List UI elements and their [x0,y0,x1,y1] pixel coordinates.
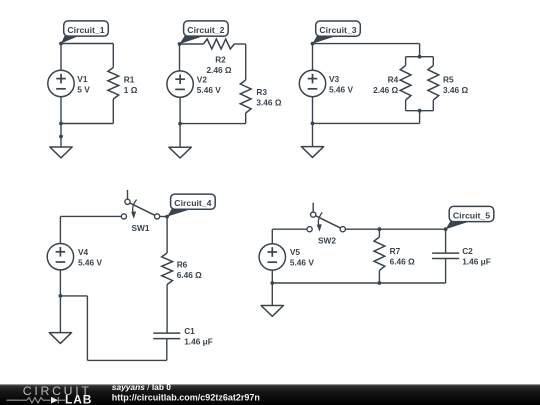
svg-text:5.46 V: 5.46 V [78,258,102,268]
node dot N2 top [178,42,182,46]
svg-text:Circuit_5: Circuit_5 [453,211,490,221]
junction dot R7 bottom [378,281,382,285]
resistor R6 [162,253,173,285]
capacitor C1 [153,333,180,339]
wire left-top C4 [59,216,61,243]
resistor R1 [108,68,119,100]
svg-text:V2: V2 [197,74,208,84]
ground GND4 [49,333,71,344]
svg-text:1.46 μF: 1.46 μF [184,337,213,347]
wire parallel bottom bar [406,110,434,112]
wire ground stub C1 [60,137,62,148]
switch SW2 [307,203,345,232]
svg-text:Circuit_1: Circuit_1 [67,25,104,35]
ground GND1 [50,147,72,158]
wire left-top C1 [60,44,62,71]
label flag Circuit_5 [446,206,494,229]
node dot N1 top [59,42,63,46]
junction dot parallel bottom [418,109,422,113]
wire R5 top stub [432,57,434,66]
svg-text:C1: C1 [184,326,195,336]
wire node to R2 [180,43,204,45]
svg-text:5.46 V: 5.46 V [329,85,353,95]
junction dot parallel top [418,55,422,59]
ground GND5 [261,306,283,317]
resistor R3 [240,80,251,113]
wire dot to riser C4 [60,295,87,297]
wire bottom C3 [313,122,420,124]
voltage source V1 [48,70,74,96]
switch SW1 [121,190,159,219]
capacitor C2 [432,253,459,258]
voltage source V4 [47,244,73,270]
wire right rail C4 [166,217,168,253]
svg-text:1 Ω: 1 Ω [124,85,138,95]
svg-text:Circuit_4: Circuit_4 [174,198,211,208]
wire R5 bottom stub [432,100,434,111]
wire left-bottom C4 [59,270,61,296]
svg-text:R3: R3 [256,87,267,97]
voltage source V5 [259,244,285,270]
wire ground stub C3 [312,123,314,146]
label flag Circuit_3 [313,21,361,44]
svg-text:SW2: SW2 [318,236,336,246]
wire bottom C1 [61,123,113,125]
ground GND2 [169,147,191,158]
junction dot C1 bottom [59,122,63,126]
node dot N3 top [311,42,315,46]
wire right-top C1 [112,44,114,68]
label flag Circuit_4 [167,194,215,217]
svg-text:R4: R4 [388,74,399,84]
svg-text:V3: V3 [329,74,340,84]
node dot N5 [444,227,448,231]
svg-text:C2: C2 [462,246,473,256]
wire ground stub C4 [59,296,61,333]
logo wire squiggle with resistor and diode [7,397,66,404]
wire R7 to node [379,228,445,230]
svg-text:R6: R6 [177,260,188,270]
wire left-bottom C5 [271,270,273,283]
svg-text:LAB: LAB [65,392,92,405]
junction dot C5 [270,281,274,285]
svg-text:SW1: SW1 [132,223,150,233]
wire bottom C2 [180,123,246,125]
resistor R4 [400,66,411,101]
label flag Circuit_2 [180,21,229,44]
node dot C1 ground [59,135,63,139]
wire bottom-left riser C4 [86,296,88,361]
wire right-top C2 [245,44,247,80]
wire top C3 [313,43,420,45]
wire R4 top stub [405,57,407,66]
wire top-left C4 [60,215,121,217]
wire left-top C2 [179,44,181,71]
svg-text:2.46 Ω: 2.46 Ω [373,85,398,95]
wire left-bottom C1 [60,97,62,137]
svg-text:1.46 μF: 1.46 μF [462,257,491,267]
wire bottom C5 [272,282,445,284]
svg-text:R5: R5 [443,74,454,84]
svg-text:3.46 Ω: 3.46 Ω [443,85,468,95]
wire ground stub C5 [271,283,273,306]
svg-text:R1: R1 [124,74,135,84]
wire R6 to C1cap [166,285,168,334]
svg-text:5.46 V: 5.46 V [197,85,221,95]
wire bottom C4 [87,359,166,361]
wire SW1 to node [160,215,168,217]
resistor R7 [374,237,385,271]
svg-text:5 V: 5 V [77,85,90,95]
svg-text:5.46 V: 5.46 V [290,258,314,268]
wire top C1 [61,43,113,45]
svg-text:6.46 Ω: 6.46 Ω [177,270,202,280]
svg-text:Circuit_3: Circuit_3 [319,25,356,35]
junction dot C4 [59,294,63,298]
svg-text:V5: V5 [290,247,301,257]
junction dot C2 bottom [178,122,182,126]
wire ground stub C2 [179,124,181,148]
svg-text:R7: R7 [390,246,401,256]
ground GND3 [301,147,323,158]
wire C2 bottom stub [445,259,447,284]
voltage source V2 [167,71,193,97]
wire left-bottom C2 [179,97,181,123]
svg-text:6.46 Ω: 6.46 Ω [390,257,415,267]
wire C2 top stub [445,229,447,253]
wire R4 bottom stub [405,100,407,111]
wire left-top C5 [271,229,273,244]
label flag Circuit_1 [61,21,108,44]
svg-text:http://circuitlab.com/c92tz6at: http://circuitlab.com/c92tz6at2r97n [112,392,260,402]
svg-text:R2: R2 [215,55,226,65]
resistor R2 [203,39,234,49]
wire left-bottom C3 [312,97,314,124]
svg-text:3.46 Ω: 3.46 Ω [256,98,281,108]
wire right-bottom C2 [245,113,247,124]
wire rail drop C3 [419,44,421,57]
svg-text:sayyans / lab 0: sayyans / lab 0 [112,382,171,392]
wire below C1cap [166,339,168,361]
wire parallel top bar [406,56,434,58]
resistor R5 [428,66,439,101]
wire R7 bottom stub [378,271,380,284]
svg-text:V4: V4 [78,247,89,257]
voltage source V3 [299,70,325,96]
wire top-left C5 [272,228,307,230]
svg-text:2.46 Ω: 2.46 Ω [206,65,231,75]
wire left-top C3 [312,44,314,71]
wire right-bottom C1 [112,99,114,124]
svg-text:V1: V1 [77,74,88,84]
junction dot R7 top [378,227,382,231]
junction dot C3 bottom [311,122,315,126]
wire R2 to rail [234,43,245,45]
node dot N4 [165,215,169,219]
wire rail rise C3 [419,111,421,124]
svg-text:Circuit_2: Circuit_2 [187,25,224,35]
wire SW2 to R7 [345,228,379,230]
footer bar [0,384,540,405]
wire R7 top stub [378,229,380,237]
